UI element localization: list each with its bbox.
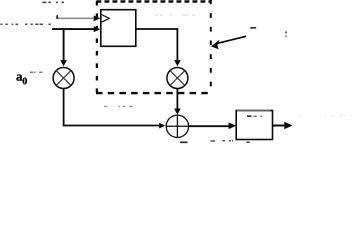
arrowhead output xyxy=(284,122,292,129)
label a0 xyxy=(16,75,27,85)
faint erased text remnants top-left xyxy=(42,1,64,3)
arrowhead into adder top xyxy=(174,109,181,115)
soft gray top edge of output box xyxy=(237,110,270,112)
arrowhead into output box xyxy=(229,122,236,129)
adder (plus circle) xyxy=(166,115,188,137)
wire: adder to output box xyxy=(188,125,230,127)
faint mark near diagonal arrow tail xyxy=(250,27,256,29)
arrowhead of diagonal arrow xyxy=(211,40,220,49)
wire: right multiplier down to adder xyxy=(176,89,178,110)
faint mark below adder xyxy=(180,141,188,143)
arrowhead into clock input xyxy=(94,15,101,21)
output box xyxy=(236,111,272,140)
output arrow from box xyxy=(273,125,286,127)
arrowhead into left multiplier xyxy=(60,60,67,66)
arrowhead into data input xyxy=(94,26,101,32)
multiplier left (X circle) xyxy=(53,68,74,89)
faint erased marks inside dashed box top-right xyxy=(155,14,196,16)
dashed box left edge xyxy=(96,1,98,93)
wire: branch down to left multiplier xyxy=(63,29,65,61)
dashed box right edge xyxy=(210,0,212,93)
wire: gray input line to clock xyxy=(58,17,97,19)
faint marks below output box xyxy=(211,141,250,143)
arrowhead into right multiplier xyxy=(174,60,181,66)
faint dashes right of a0 xyxy=(30,71,42,73)
wire: left multiplier down and right to adder xyxy=(64,89,160,126)
faint erased marks below dashed box xyxy=(104,105,132,107)
dashed box (delay section) top edge xyxy=(97,0,211,2)
register box U1 xyxy=(101,10,136,47)
faint dashed line far right xyxy=(299,115,352,117)
clock symbol on register xyxy=(102,15,110,23)
arrowhead into adder left xyxy=(159,123,165,129)
wire: black input line (data) xyxy=(52,28,97,30)
dark tick at start of gray line xyxy=(56,15,58,19)
dashed box bottom edge xyxy=(96,92,211,94)
multiplier right (X circle) xyxy=(167,68,188,89)
faint vertical mark right side xyxy=(285,31,287,36)
wire: register output to right multiplier xyxy=(136,29,178,62)
diagonal arrow pointing at dashed box xyxy=(217,36,247,43)
faint dotted leader line left xyxy=(1,23,51,25)
faint erased label inside output box xyxy=(247,115,252,117)
